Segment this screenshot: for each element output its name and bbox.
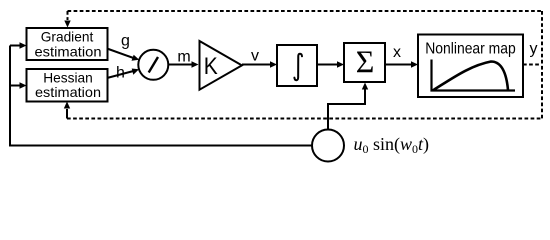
wire m: divider to gain K [168,61,198,67]
svg-text:Σ: Σ [356,44,375,80]
wire: perturbation to sum input [328,83,368,130]
sum block sigma [344,43,385,82]
wire: arrow into Gradient estimation left [10,42,27,48]
label h [116,65,125,82]
block: Gradient estimation [27,28,108,60]
svg-text:g: g [121,33,130,50]
wire g: Gradient output to divider [107,49,139,61]
divider circle U1 [138,50,168,80]
gain K triangle [200,41,242,90]
wire: dashed stub with arrow into Hessian estimation bottom [64,102,70,119]
wire: left feedback line from bottom circle to estimator inputs [10,46,312,146]
integrator block [277,45,317,86]
wire x: sum to nonlinear map [385,61,418,67]
svg-text:y: y [530,41,538,58]
svg-text:v: v [251,48,259,65]
svg-text:K: K [204,53,218,80]
wire: dashed stub with arrow into Gradient estimation top [64,11,70,28]
nonlinear map axes [432,60,516,91]
wire: arrow into Hessian estimation left [10,82,27,88]
label x [393,44,401,61]
svg-text:estimation: estimation [35,44,102,60]
wire: dashed feedback top line [68,10,543,12]
label u0 sin(w0 t) [354,134,430,156]
block: Nonlinear map [418,35,523,98]
svg-text:x: x [393,44,401,61]
block: Hessian estimation [27,69,108,102]
label g [121,33,130,50]
wire: dashed feedback bottom line [67,118,542,120]
nonlinear map curve [433,62,508,91]
wire: integrator to sum [317,61,344,67]
wire h: Hessian output to divider [107,69,139,79]
perturbation source circle [312,130,344,162]
svg-text:Nonlinear map: Nonlinear map [425,41,516,58]
svg-text:estimation: estimation [35,84,101,100]
svg-text:Gradient: Gradient [41,29,94,45]
svg-text:m: m [177,48,190,65]
svg-text:h: h [116,65,125,82]
wire: dashed feedback right vertical line [541,11,543,119]
wire v: gain to integrator [242,61,277,67]
wire: dashed output y from Nonlinear map to right line [523,64,541,66]
label y [530,41,538,58]
label v [251,48,259,65]
label m [177,48,190,65]
